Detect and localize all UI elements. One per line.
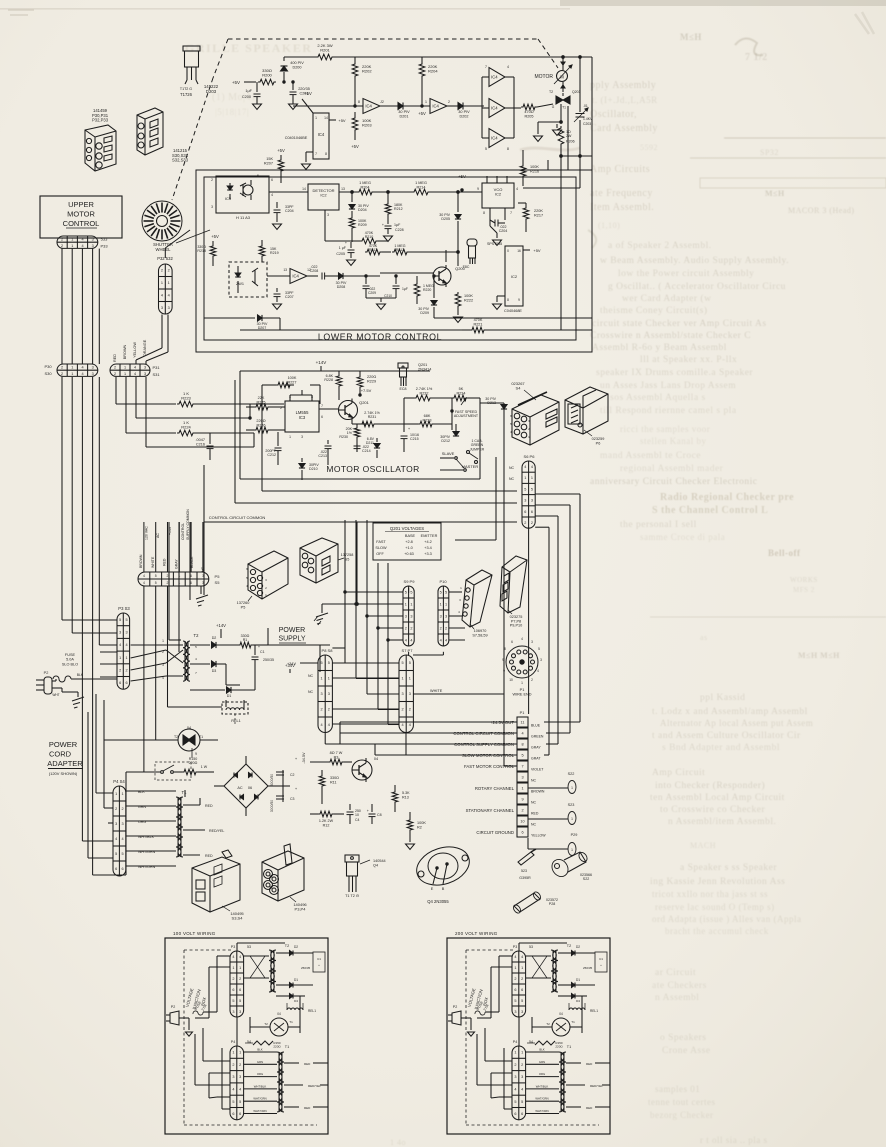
svg-text:WHEEL: WHEEL	[156, 247, 172, 252]
svg-text:2: 2	[514, 1063, 516, 1067]
svg-text:1: 1	[445, 602, 447, 606]
svg-text:ROTARY CHANNEL: ROTARY CHANNEL	[475, 786, 515, 791]
svg-text:2: 2	[125, 669, 127, 673]
svg-text:3: 3	[239, 1075, 241, 1079]
svg-text:470K: 470K	[474, 318, 483, 322]
svg-text:+5V: +5V	[232, 80, 240, 85]
svg-text:WORKS: WORKS	[790, 576, 818, 584]
svg-text:140544: 140544	[373, 859, 386, 863]
svg-text:R225: R225	[256, 400, 265, 404]
resistor R220	[414, 276, 434, 304]
wire labels at P5	[139, 509, 205, 572]
connector 023259 P6	[565, 387, 608, 445]
capacitor C228	[382, 221, 404, 241]
svg-text:P2: P2	[44, 671, 49, 675]
svg-text:.0047: .0047	[195, 438, 205, 442]
svg-text:BLK: BLK	[539, 1048, 544, 1052]
svg-text:FUSE: FUSE	[65, 653, 76, 657]
svg-text:P1: P1	[520, 711, 525, 715]
svg-text:t and Assem Culture Oscillat: t and Assem Culture Oscillator Cir	[652, 731, 801, 741]
connector P3 S3 power	[100, 606, 130, 689]
capacitor C201	[283, 81, 310, 110]
diode D207	[204, 315, 280, 330]
ground (motor circuit)	[534, 122, 562, 141]
svg-text:2: 2	[440, 626, 442, 630]
svg-text:C203: C203	[583, 122, 591, 126]
svg-text:NC: NC	[531, 823, 537, 827]
svg-text:Q201 VOLTAGES: Q201 VOLTAGES	[390, 526, 424, 531]
capacitor C4	[347, 804, 361, 824]
svg-text:C210: C210	[384, 294, 392, 298]
svg-text:C8: C8	[377, 813, 382, 817]
svg-text:R204: R204	[428, 69, 438, 74]
svg-text:till Respond riernne camel: till Respond riernne camel s pla	[600, 406, 737, 416]
svg-text:Q201: Q201	[359, 400, 370, 405]
connector 106970	[458, 570, 492, 637]
svg-text:as: as	[700, 633, 708, 642]
connector P30 S30	[44, 364, 97, 376]
svg-text:2: 2	[167, 581, 169, 585]
svg-text:30 PIV: 30 PIV	[458, 110, 470, 114]
svg-text:.01: .01	[583, 104, 588, 108]
svg-text:5: 5	[521, 1100, 523, 1104]
svg-text:D203: D203	[206, 89, 217, 94]
chassis ground	[314, 522, 358, 625]
junction box 200 VOLT WIRING	[447, 931, 610, 1134]
svg-text:+5V: +5V	[338, 118, 346, 123]
svg-text:P4: P4	[513, 1040, 517, 1044]
svg-text:C216: C216	[196, 442, 205, 446]
wire P31 bus	[116, 377, 254, 447]
svg-text:1: 1	[410, 602, 412, 606]
svg-text:+5V: +5V	[418, 111, 426, 116]
op-amp IC4c	[267, 268, 311, 284]
svg-text:BROWN: BROWN	[531, 790, 545, 794]
svg-text:IC2: IC2	[495, 192, 502, 197]
svg-text:220Ω: 220Ω	[256, 419, 265, 423]
svg-text:Q4 2N3055: Q4 2N3055	[427, 899, 449, 904]
svg-text:1: 1	[521, 966, 523, 970]
resistor R212	[385, 192, 403, 221]
svg-text:pply Assembly: pply Assembly	[590, 80, 656, 91]
connector P10	[438, 579, 465, 646]
svg-text:Item Assembl.: Item Assembl.	[590, 202, 654, 213]
svg-text:4: 4	[409, 723, 411, 727]
svg-text:w Beam Assembly. Audio Supply: w Beam Assembly. Audio Supply Assembly.	[600, 256, 789, 266]
svg-text:4: 4	[134, 372, 136, 376]
svg-text:SUPPLY COMMON: SUPPLY COMMON	[186, 509, 190, 540]
svg-text:6: 6	[321, 415, 323, 419]
svg-text:54: 54	[247, 1040, 251, 1044]
svg-text:+: +	[600, 963, 602, 967]
svg-text:1: 1	[571, 848, 573, 852]
transistor Q3 R3	[310, 751, 378, 782]
svg-text:S4: S4	[516, 386, 522, 391]
svg-text:1: 1	[115, 792, 117, 796]
svg-text:S23: S23	[568, 803, 575, 807]
svg-text:4: 4	[507, 65, 509, 69]
svg-text:220Ω: 220Ω	[273, 1045, 281, 1049]
svg-text:C205: C205	[336, 252, 345, 256]
capacitor C204	[273, 202, 295, 229]
svg-text:C2: C2	[290, 773, 295, 777]
svg-text:MACH: MACH	[690, 841, 716, 850]
svg-text:6: 6	[239, 1112, 241, 1116]
svg-text:R218: R218	[197, 249, 206, 253]
svg-text:reserve lac sound O: reserve lac sound O (Temp s)	[655, 902, 775, 912]
capacitor C209	[360, 275, 408, 310]
svg-text:T2: T2	[567, 944, 571, 948]
svg-text:4: 4	[328, 723, 330, 727]
svg-text:P31: P31	[152, 365, 160, 370]
svg-text:+4.2: +4.2	[424, 540, 432, 544]
svg-text:6: 6	[190, 581, 192, 585]
svg-text:3: 3	[211, 205, 213, 209]
svg-text:WHITE: WHITE	[151, 556, 155, 568]
svg-text:C207: C207	[285, 295, 294, 299]
svg-text:3: 3	[144, 366, 146, 370]
transistor 140544 Q4 (TO-220)	[345, 855, 386, 898]
svg-text:G: G	[552, 105, 555, 109]
svg-text:T2: T2	[549, 90, 553, 94]
svg-text:D205: D205	[441, 217, 450, 221]
svg-text:UPPER: UPPER	[68, 200, 94, 209]
svg-text:3: 3	[521, 1075, 523, 1079]
svg-text:2: 2	[445, 626, 447, 630]
svg-text:3: 3	[92, 238, 94, 242]
svg-text:POWER: POWER	[49, 740, 78, 749]
svg-text:06: 06	[248, 786, 252, 790]
svg-text:CONTROL CIRCUIT COMMON: CONTROL CIRCUIT COMMON	[209, 515, 266, 520]
svg-text:2: 2	[531, 521, 533, 525]
resistor R228	[324, 371, 341, 400]
svg-text:P3 S3: P3 S3	[118, 606, 130, 611]
svg-text:MOTOR OSCILLATOR: MOTOR OSCILLATOR	[326, 464, 419, 474]
dashed optical-isolation boundary	[172, 39, 558, 200]
block UPPER MOTOR CONTROL	[40, 196, 122, 238]
svg-text:R222: R222	[464, 298, 473, 302]
svg-text:5: 5	[328, 661, 330, 665]
svg-text:2: 2	[232, 1063, 234, 1067]
resistor R11	[319, 770, 339, 804]
svg-text:68K: 68K	[424, 414, 431, 418]
svg-text:D209: D209	[420, 311, 429, 315]
svg-text:bracht the accumul check: bracht the accumul check	[665, 926, 769, 936]
svg-text:7: 7	[315, 152, 317, 156]
svg-text:2: 2	[521, 977, 523, 981]
svg-text:MACOR 3 (Head): MACOR 3 (Head)	[788, 206, 855, 215]
svg-text:CONTROL: CONTROL	[63, 219, 100, 228]
svg-text:REL1: REL1	[231, 719, 241, 723]
svg-text:3: 3	[115, 822, 117, 826]
svg-text:137260: 137260	[237, 601, 250, 605]
resistor R229	[357, 371, 376, 395]
svg-text:E8C: E8C	[463, 265, 470, 269]
svg-text:Amp Circuit: Amp Circuit	[652, 768, 705, 778]
svg-text:regional Assembl mader: regional Assembl mader	[620, 464, 724, 474]
svg-text:P2: P2	[171, 1005, 175, 1009]
diode D205	[439, 192, 461, 266]
svg-text:AC: AC	[156, 533, 160, 538]
svg-text:R206: R206	[566, 140, 575, 144]
svg-text:tenne tout certes: tenne tout certes	[648, 1097, 715, 1107]
svg-text:3: 3	[531, 640, 533, 644]
svg-text:SUPPLY: SUPPLY	[278, 636, 305, 643]
svg-text:R221: R221	[473, 322, 482, 326]
svg-text:IC4: IC4	[432, 104, 439, 109]
svg-text:R219: R219	[270, 251, 279, 255]
svg-text:6: 6	[115, 867, 117, 871]
svg-text:2: 2	[514, 977, 516, 981]
svg-text:5.0A: 5.0A	[66, 657, 74, 661]
svg-text:10: 10	[520, 820, 524, 824]
wire long left bus	[62, 377, 126, 875]
svg-text:14: 14	[302, 187, 306, 191]
svg-text:+1.0: +1.0	[405, 546, 413, 550]
svg-text:15K: 15K	[266, 157, 273, 161]
resistor R202	[352, 57, 372, 106]
svg-text:220Ω: 220Ω	[555, 1045, 563, 1049]
svg-text:1μF: 1μF	[245, 89, 252, 93]
svg-text:+14V: +14V	[316, 360, 327, 365]
svg-text:-34.5V: -34.5V	[302, 752, 306, 764]
svg-text:3: 3	[232, 1010, 234, 1014]
svg-text:1 W: 1 W	[201, 765, 208, 769]
svg-text:R209: R209	[358, 223, 367, 227]
svg-text:R229: R229	[367, 379, 376, 383]
svg-text:5: 5	[321, 661, 323, 665]
svg-text:P8 S8: P8 S8	[322, 648, 334, 653]
svg-text:+3.3: +3.3	[424, 552, 432, 556]
svg-text:+5V: +5V	[304, 91, 312, 96]
svg-text:low the Power circuit: low the Power circuit Assembly	[618, 269, 754, 279]
svg-text:1: 1	[521, 787, 523, 791]
resistor R204	[419, 57, 438, 106]
diode D204	[349, 192, 369, 216]
svg-text:T1726: T1726	[180, 92, 193, 97]
svg-text:4: 4	[115, 837, 117, 841]
svg-text:3: 3	[92, 244, 94, 248]
capacitor C213	[318, 440, 331, 458]
svg-text:2: 2	[114, 372, 116, 376]
svg-text:P30: P30	[44, 364, 52, 369]
svg-text:4: 4	[521, 637, 523, 641]
svg-text:5: 5	[531, 487, 533, 491]
svg-text:1: 1	[178, 574, 180, 578]
svg-text:53: 53	[529, 945, 533, 949]
svg-text:023275: 023275	[510, 615, 523, 619]
svg-text:ADJUSTMENT: ADJUSTMENT	[454, 414, 479, 418]
svg-text:ORANGE: ORANGE	[143, 339, 147, 356]
capacitor C216	[195, 433, 213, 460]
svg-text:4: 4	[232, 1088, 234, 1092]
svg-text:D2: D2	[212, 636, 217, 640]
bridge rectifier 06	[214, 756, 276, 816]
svg-text:5: 5	[125, 618, 127, 622]
connector 140496	[262, 844, 307, 912]
transformer T2	[131, 633, 200, 681]
svg-text:IC5: IC5	[225, 196, 232, 201]
svg-text:IC4: IC4	[491, 106, 498, 111]
label CONTROL CIRCUIT COMMON	[204, 515, 517, 522]
svg-text:R204: R204	[360, 185, 369, 189]
resistor R234	[452, 387, 480, 479]
triac Q4 adapter	[104, 726, 218, 758]
svg-text:D2: D2	[576, 945, 580, 949]
svg-text:5: 5	[524, 487, 526, 491]
svg-text:5: 5	[521, 754, 523, 758]
svg-text:C0401046BE: C0401046BE	[285, 136, 308, 140]
svg-text:R217: R217	[534, 213, 543, 217]
svg-text:P28: P28	[549, 902, 555, 906]
svg-text:REL1: REL1	[308, 1009, 316, 1013]
svg-text:a of Speaker 2 Assembl.: a of Speaker 2 Assembl.	[608, 240, 712, 251]
connector housing 141215 S30-S33	[137, 108, 189, 163]
svg-text:T1: T1	[571, 1020, 575, 1024]
svg-text:NC: NC	[509, 466, 515, 470]
svg-text:4: 4	[524, 465, 526, 469]
svg-text:1: 1	[521, 1051, 523, 1055]
svg-text:R214: R214	[416, 185, 425, 189]
jack S22	[528, 772, 576, 794]
svg-text:S30: S30	[44, 371, 52, 376]
capacitor C203	[574, 57, 593, 156]
svg-text:4: 4	[81, 366, 83, 370]
svg-text:R234: R234	[456, 391, 465, 395]
svg-text:C1: C1	[260, 650, 265, 654]
capacitor C205	[336, 241, 355, 265]
svg-text:5K: 5K	[459, 387, 464, 391]
svg-text:3: 3	[405, 614, 407, 618]
svg-text:Crone Asse: Crone Asse	[662, 1046, 711, 1056]
svg-text:POWER: POWER	[279, 627, 305, 634]
diode D3	[190, 661, 240, 685]
resistor R226	[246, 419, 285, 433]
svg-text:MOTOR: MOTOR	[67, 210, 95, 219]
svg-text:FAST: FAST	[376, 540, 386, 544]
resistor R205	[521, 104, 553, 118]
svg-text:1: 1	[232, 1051, 234, 1055]
svg-text:04: 04	[374, 757, 378, 761]
svg-text:4: 4	[410, 638, 412, 642]
svg-text:5592: 5592	[640, 143, 658, 152]
svg-text:6: 6	[521, 831, 523, 835]
svg-text:2: 2	[409, 708, 411, 712]
svg-text:5: 5	[514, 1100, 516, 1104]
svg-text:6: 6	[271, 178, 273, 182]
svg-text:+: +	[318, 963, 320, 967]
svg-text:Oscillator,: Oscillator,	[590, 109, 637, 120]
svg-text:4: 4	[537, 669, 539, 673]
triac Q203	[549, 90, 581, 122]
svg-text:8: 8	[358, 100, 360, 104]
svg-text:5: 5	[232, 1100, 234, 1104]
svg-text:8: 8	[325, 152, 327, 156]
svg-text:3: 3	[168, 306, 170, 310]
svg-text:samples 01: samples 01	[655, 1084, 700, 1094]
svg-text:WHITE: WHITE	[430, 689, 443, 693]
svg-text:Alternator Ap local Assem: Alternator Ap local Assem put Assem	[660, 718, 813, 728]
svg-text:1: 1	[440, 602, 442, 606]
svg-text:100K: 100K	[288, 376, 297, 380]
svg-text:3: 3	[521, 776, 523, 780]
transistor Q4 2N3055 (TO-3)	[412, 841, 474, 904]
svg-text:8: 8	[521, 743, 523, 747]
svg-text:2: 2	[321, 708, 323, 712]
svg-text:1: 1	[524, 476, 526, 480]
svg-text:220Ω: 220Ω	[367, 375, 376, 379]
svg-text:2: 2	[328, 708, 330, 712]
svg-text:4: 4	[521, 955, 523, 959]
svg-text:4: 4	[134, 366, 136, 370]
svg-text:SLOW: SLOW	[375, 546, 387, 550]
wire web control rails	[344, 520, 403, 725]
connector P4 S4	[113, 779, 126, 876]
svg-text:8: 8	[507, 147, 509, 151]
svg-text:6: 6	[531, 510, 533, 514]
svg-text:2: 2	[402, 708, 404, 712]
svg-text:1: 1	[531, 476, 533, 480]
svg-text:S31: S31	[152, 372, 160, 377]
resistor R218	[197, 234, 219, 266]
wire box bottom rail	[240, 318, 462, 330]
svg-text:10: 10	[509, 678, 513, 682]
resistor R223	[177, 391, 195, 407]
svg-text:4: 4	[531, 465, 533, 469]
svg-text:C214: C214	[362, 449, 371, 453]
AC plug P2 line	[36, 671, 84, 708]
transistor SPS7535 E8C	[463, 239, 503, 269]
svg-text:3: 3	[540, 658, 542, 662]
svg-text:S22: S22	[568, 772, 575, 776]
svg-text:1: 1	[571, 786, 573, 790]
svg-text:R2: R2	[417, 825, 422, 829]
svg-text:3: 3	[119, 631, 121, 635]
svg-text:8: 8	[483, 211, 485, 215]
svg-text:RED: RED	[163, 558, 167, 566]
svg-text:s Bnd Adapter and Assembl: s Bnd Adapter and Assembl	[662, 743, 780, 753]
svg-text:(1,10): (1,10)	[598, 221, 620, 230]
svg-text:S9 P9: S9 P9	[404, 579, 416, 584]
svg-text:BROWN: BROWN	[139, 554, 143, 568]
+7.5V label	[359, 388, 372, 396]
capacitor C1	[252, 645, 275, 668]
svg-text:IC4: IC4	[292, 274, 299, 279]
svg-text:anniversary Circuit Checker E: anniversary Circuit Checker Electronic	[590, 477, 758, 487]
svg-text:RED: RED	[304, 1062, 311, 1066]
svg-text:2: 2	[531, 678, 533, 682]
svg-text:S3,S4: S3,S4	[232, 916, 244, 921]
svg-text:tricot xxllo nor tha: tricot xxllo nor tha jass st ss	[652, 889, 768, 899]
svg-text:5: 5	[155, 574, 157, 578]
svg-text:WHT/BLK: WHT/BLK	[254, 1084, 267, 1088]
svg-text:sos Assembl Aquella s: sos Assembl Aquella s	[610, 393, 706, 403]
svg-text:3: 3	[239, 1010, 241, 1014]
svg-text:RED/YEL: RED/YEL	[308, 1084, 321, 1088]
svg-text:3: 3	[125, 631, 127, 635]
svg-text:5: 5	[122, 852, 124, 856]
svg-text:1 MEG: 1 MEG	[359, 181, 371, 185]
svg-text:04: 04	[277, 1012, 281, 1016]
svg-text:speaker IX Drums comille.a Sp: speaker IX Drums comille.a Speaker	[596, 368, 753, 378]
connector S7 P7	[399, 648, 504, 733]
jumper 1 CAB GREEN	[467, 439, 485, 464]
svg-text:IC3: IC3	[299, 415, 306, 420]
svg-text:3: 3	[524, 499, 526, 503]
svg-text:120 VAC: 120 VAC	[145, 526, 149, 540]
svg-text:+0.63: +0.63	[404, 552, 414, 556]
svg-text:IC4: IC4	[491, 136, 498, 141]
